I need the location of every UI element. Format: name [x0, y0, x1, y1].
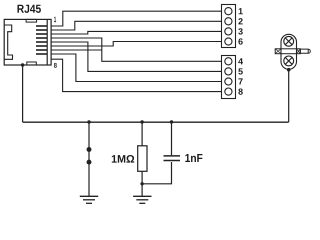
terminal labels 4 5 7 8 [238, 58, 243, 95]
wire bus to resistor [141, 122, 143, 146]
terminal 5 [225, 68, 232, 75]
clamp contact circle bottom [284, 56, 294, 66]
node: jack shield on body [21, 63, 24, 66]
terminal block X2 (4,5,7,8) [222, 56, 236, 99]
RJ45 socket keying profile [4, 25, 12, 59]
wire bus to spark gap [88, 122, 90, 196]
ground bus wire [23, 121, 289, 123]
node: bus / capacitor [170, 120, 173, 123]
ground symbol (spark gap) [80, 196, 98, 203]
wire pin3 to terminal 3 [51, 31, 221, 34]
capacitor C1 1nF [164, 156, 181, 161]
clamp stadium body [281, 34, 297, 69]
node: bus / spark gap [87, 120, 90, 123]
wire junction to capacitor bottom [142, 162, 171, 184]
wire pin5 to terminal 5 [51, 42, 221, 71]
wire jack body down to bus [22, 65, 24, 122]
wire pin8 to terminal 7 [51, 54, 221, 82]
spark gap F1 electrode bottom [87, 160, 92, 165]
RJ45 connector J1 body [4, 19, 51, 65]
RJ45 top tab [26, 19, 36, 22]
wire clamp down to bus [288, 70, 290, 122]
RJ45 bottom tab [27, 62, 37, 65]
clamp contact circle top [284, 36, 294, 46]
shield clamp (DIN rail contact) [281, 34, 297, 69]
ground symbol (resistor/capacitor) [133, 196, 151, 203]
terminal 3 [225, 28, 232, 35]
terminal 1 [225, 8, 232, 15]
spark gap F1 electrode top [87, 147, 92, 152]
label 1MOhm [112, 155, 134, 163]
label 1nF [185, 154, 202, 162]
wire pin1 to terminal 1 [51, 11, 221, 26]
wire pin2 to terminal 2 [51, 21, 221, 30]
pin 1 label [54, 17, 56, 22]
node: resistor/capacitor junction [140, 182, 143, 185]
terminal labels 1 2 3 6 [238, 8, 243, 45]
wire pin7 junction to pin4 wire [51, 49, 102, 51]
resistor R1 1MOhm [138, 146, 147, 172]
label RJ45 [17, 5, 40, 13]
terminal 8 [225, 88, 232, 95]
pin 8 label [54, 63, 57, 68]
wire resistor to ground node [141, 171, 143, 196]
clamp cross bar [275, 49, 310, 54]
terminal 4 [225, 58, 232, 65]
wire shield contact to terminal 8 [51, 59, 221, 91]
terminal 2 [225, 18, 232, 25]
terminal 6 [225, 38, 232, 45]
clamp hatch marks [275, 49, 300, 54]
node: clamp to ground bus [287, 68, 291, 72]
wire pin4 to terminal 4 [51, 38, 221, 61]
terminal 7 [225, 78, 232, 85]
node: bus / resistor [140, 120, 143, 123]
wire pin6 to terminal 6 [51, 42, 221, 47]
wire bus to capacitor [171, 122, 173, 155]
RJ45 contact pins 1-8 (teeth) [36, 26, 47, 54]
terminal block X1 (1,2,3,6) [222, 5, 236, 48]
